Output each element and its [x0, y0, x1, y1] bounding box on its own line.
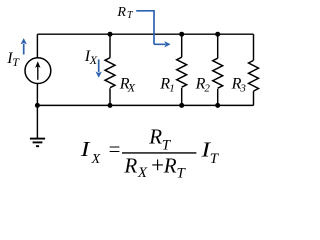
wire ground stem: [36, 105, 38, 138]
arrow IX (blue, down): [96, 59, 102, 77]
resistor R1 leads: [181, 34, 183, 105]
svg-text:1: 1: [169, 83, 175, 95]
arrow IT (blue, up): [21, 38, 27, 54]
svg-text:R: R: [123, 154, 137, 178]
wire left branch lower: [36, 84, 38, 106]
resistor R3 zigzag: [249, 60, 259, 91]
ground: [30, 139, 45, 147]
equation I_X = R_T / (R_X + R_T) I_T: [80, 125, 220, 182]
wire bottom horizontal: [37, 104, 253, 106]
svg-text:X: X: [127, 81, 136, 95]
svg-text:3: 3: [239, 82, 246, 94]
current source I_T circle: [25, 58, 51, 84]
current source arrow: [35, 61, 40, 80]
svg-text:I: I: [80, 137, 91, 161]
junction dot bottom RX: [108, 103, 113, 108]
svg-text:R: R: [163, 154, 177, 178]
svg-text:2: 2: [204, 82, 210, 94]
junction dot bottom R1: [179, 103, 184, 108]
junction dot bottom R2: [215, 103, 220, 108]
junction dot top R1: [179, 32, 184, 37]
resistor R3 leads: [253, 34, 255, 105]
junction dot top R2: [215, 32, 220, 37]
resistor R2 zigzag: [213, 58, 223, 88]
resistor RX leads: [109, 34, 111, 105]
svg-text:X: X: [137, 165, 148, 181]
resistor RX zigzag: [105, 58, 115, 88]
pointer RT (blue polyline with right arrow): [136, 11, 170, 48]
junction dot top RX: [108, 32, 113, 37]
eq fraction bar: [122, 152, 196, 154]
wire top horizontal: [37, 33, 253, 35]
resistor R1 zigzag: [177, 57, 187, 87]
junction dot bottom ground: [35, 103, 40, 108]
svg-text:=: =: [107, 137, 121, 161]
wire left branch upper: [36, 34, 38, 58]
svg-text:X: X: [91, 152, 101, 167]
svg-text:R: R: [116, 5, 126, 20]
svg-text:X: X: [89, 53, 98, 67]
resistor R2 leads: [217, 34, 219, 105]
svg-text:R: R: [148, 125, 162, 149]
